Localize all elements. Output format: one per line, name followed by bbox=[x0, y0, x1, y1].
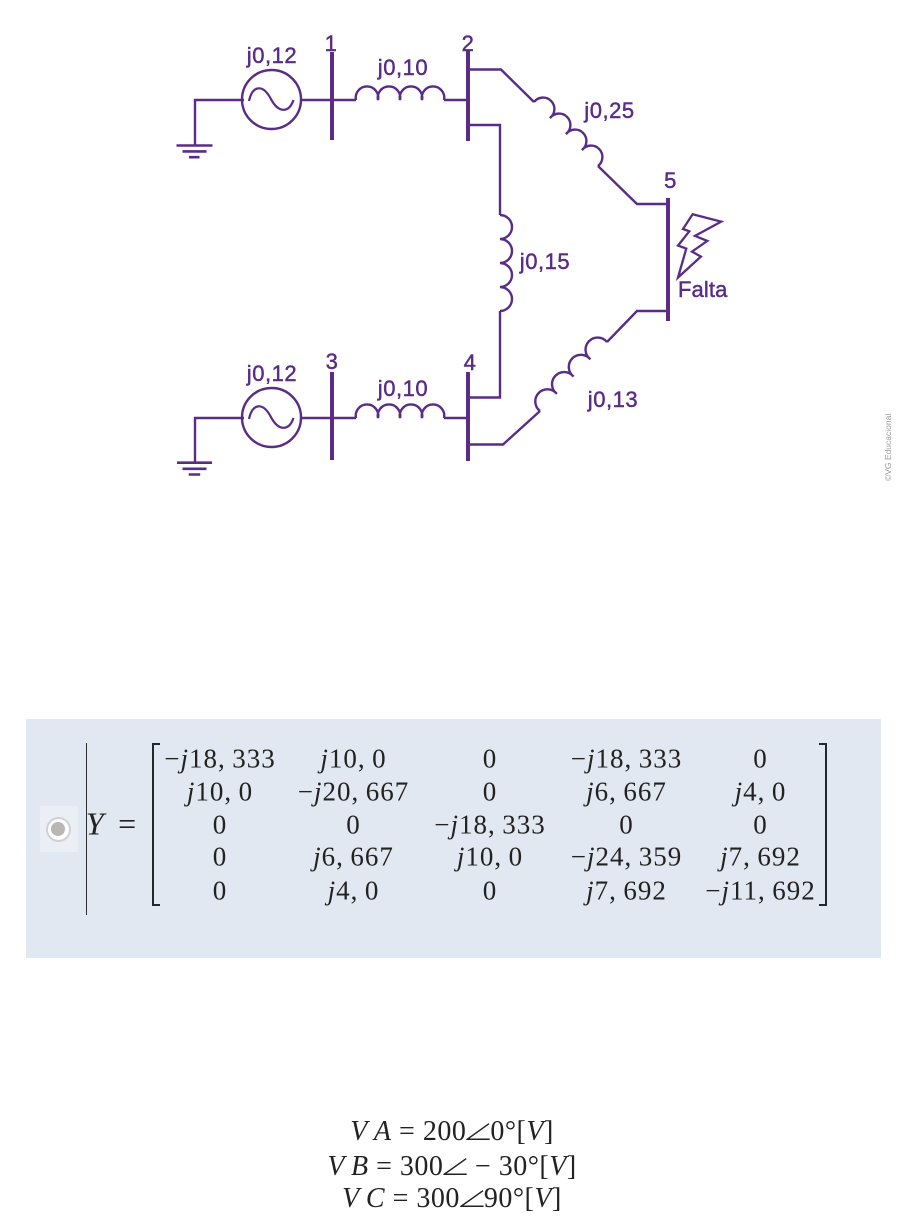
wire coil to bus 5 bbox=[607, 311, 668, 342]
svg-text:1: 1 bbox=[325, 31, 338, 56]
inductor j0,25 (line 2-5) bbox=[534, 98, 602, 166]
sine wave S1 bbox=[249, 88, 294, 109]
matrix entries row 3 bbox=[213, 810, 228, 841]
svg-text:j0,13: j0,13 bbox=[587, 387, 638, 412]
ground GND1 bbox=[177, 100, 245, 157]
svg-text:j0,25: j0,25 bbox=[583, 98, 634, 123]
svg-text:5: 5 bbox=[664, 168, 677, 193]
svg-text:j0,10: j0,10 bbox=[377, 376, 428, 401]
matrix entries row 4 bbox=[213, 842, 228, 873]
inductor j0,10 (top) bbox=[356, 86, 445, 100]
inductor j0,10 (bottom) bbox=[356, 404, 445, 418]
generator S1 bbox=[242, 70, 301, 129]
inductor j0,13 (line 4-5) bbox=[535, 338, 607, 411]
wire coil to bus 5 bbox=[598, 166, 668, 204]
lightning bolt fault symbol bbox=[678, 214, 721, 277]
svg-text:j0,15: j0,15 bbox=[519, 249, 570, 274]
wire bus4 to line 4-5 bbox=[468, 411, 540, 445]
wire coil to bus 2 bbox=[444, 99, 468, 101]
inductor j0,15 (line 2-4) bbox=[500, 215, 512, 311]
matrix right bracket bbox=[819, 743, 827, 906]
bus 3 bbox=[330, 372, 334, 460]
svg-text:j0,10: j0,10 bbox=[377, 55, 428, 80]
bus 5 bbox=[666, 198, 670, 321]
matrix entries row 2 bbox=[187, 776, 253, 807]
wire bus2 to line 2-4 bbox=[468, 125, 500, 215]
svg-text:4: 4 bbox=[464, 350, 477, 375]
bus 1 bbox=[330, 52, 334, 140]
wire generator to bus 1 and coil bbox=[300, 99, 356, 101]
bus 4 bbox=[466, 372, 470, 461]
svg-text:Falta: Falta bbox=[678, 277, 728, 302]
ground GND2 bbox=[177, 418, 244, 475]
matrix entries row 5 bbox=[213, 875, 228, 906]
answer option panel bbox=[26, 719, 881, 958]
svg-text:3: 3 bbox=[326, 349, 339, 374]
svg-text:j0,12: j0,12 bbox=[246, 43, 297, 68]
watermark VG Educacional bbox=[883, 414, 893, 481]
bus 2 bbox=[466, 50, 470, 141]
wire coil to bus 4 bbox=[468, 311, 500, 398]
generator S2 bbox=[242, 388, 301, 447]
wire generator to bus 3 and coil bbox=[300, 417, 356, 419]
svg-text:2: 2 bbox=[462, 31, 475, 56]
wire bus2 to line 2-5 bbox=[468, 70, 534, 103]
circuit schematic bbox=[0, 0, 902, 520]
matrix entries row 1 bbox=[164, 743, 275, 774]
voltage equations bbox=[350, 1116, 554, 1148]
radio button bbox=[40, 806, 78, 852]
svg-text:j0,12: j0,12 bbox=[246, 361, 297, 386]
equation left rule bbox=[86, 743, 87, 915]
wire coil to bus 4 bbox=[444, 417, 468, 419]
matrix left bracket bbox=[152, 743, 160, 906]
Y = label bbox=[86, 805, 136, 842]
sine wave S2 bbox=[249, 406, 294, 427]
